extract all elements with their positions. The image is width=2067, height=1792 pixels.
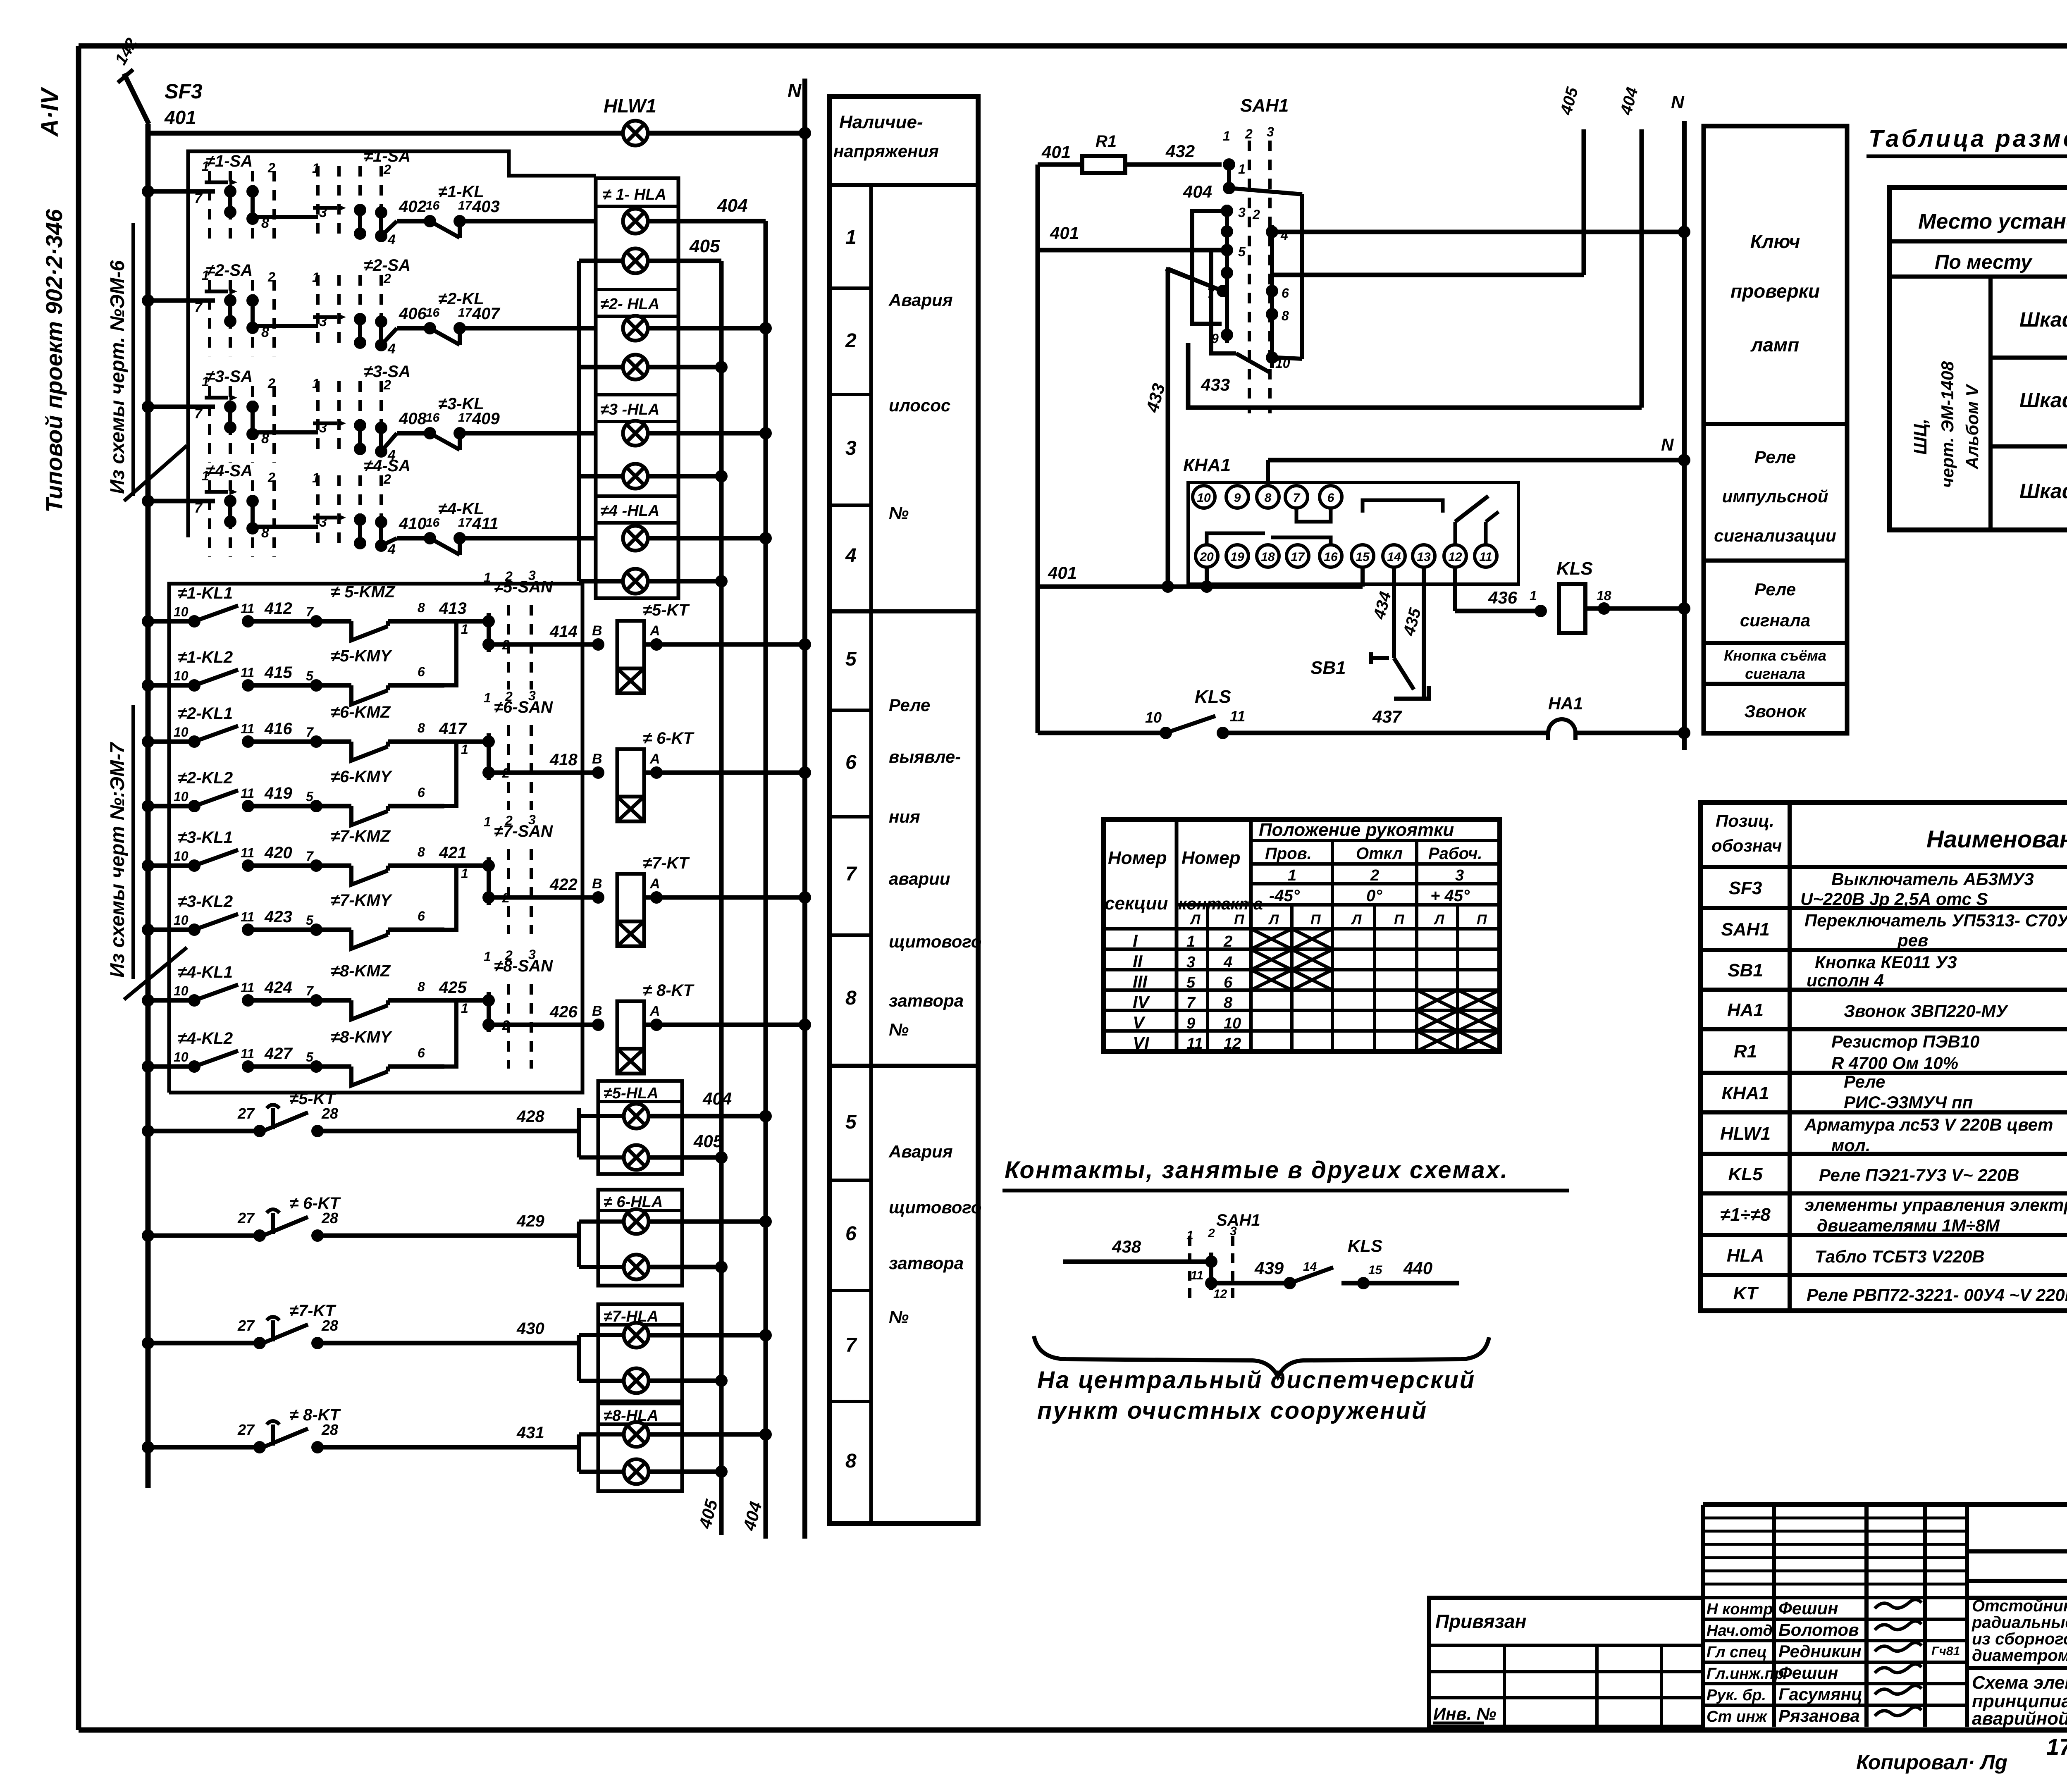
lamp box label divider 2a (596, 288, 678, 291)
KHA1 pin 6 (1320, 486, 1342, 508)
svg-text:Кнопка КЕ011 У3: Кнопка КЕ011 У3 (1815, 952, 1957, 972)
wire ≠5-KT А to N (644, 642, 805, 647)
svg-text:424: 424 (264, 978, 292, 997)
relay coil KLS (1559, 584, 1585, 633)
wire into lamp 1 (579, 1219, 624, 1224)
svg-text:14: 14 (1387, 550, 1401, 564)
svg-text:2: 2 (1252, 207, 1260, 222)
svg-text:≠4-KL1: ≠4-KL1 (178, 963, 233, 981)
svg-text:П: П (1310, 912, 1321, 928)
svg-text:3: 3 (319, 420, 327, 436)
svg-text:Табло ТСБТ3 V220В: Табло ТСБТ3 V220В (1815, 1247, 1985, 1266)
svg-text:Схема электрическая: Схема электрическая (1972, 1673, 2067, 1693)
svg-text:3: 3 (1455, 867, 1464, 884)
svg-text:401: 401 (1050, 223, 1079, 243)
contactor contact ≠5-KMY (310, 679, 444, 704)
wire ≠4-SA A8 to B (253, 525, 318, 529)
svg-text:≠2-KL2: ≠2-KL2 (178, 769, 233, 787)
wire ≠8-HLA-1 to 404 (649, 1432, 766, 1437)
junction ≠ 8-KT А (650, 1019, 663, 1031)
svg-text:20: 20 (1199, 550, 1214, 564)
wire ≠5-HLA-1 to 404 (649, 1114, 766, 1119)
junction on bus 401 (142, 401, 154, 413)
relay contact ≠4-KL1 row (142, 985, 316, 1007)
svg-text:По месту: По месту (1935, 251, 2033, 273)
time relay contact ≠5-KT (27-28) (142, 1105, 579, 1138)
svg-text:11: 11 (1230, 708, 1245, 725)
svg-text:439: 439 (1254, 1258, 1284, 1278)
junction at SAN pin 1 (482, 994, 495, 1007)
junction ≠ 8-KT В (592, 1019, 604, 1031)
junction on N (1678, 602, 1690, 615)
svg-text:Фешин: Фешин (1778, 1599, 1838, 1618)
lamp ≠7-HLA-2 (624, 1368, 649, 1393)
svg-text:10: 10 (1224, 1015, 1241, 1032)
X mark Рабоч П (1458, 1031, 1500, 1051)
KHA1 pin 20 (1196, 545, 1218, 567)
svg-text:5: 5 (845, 648, 857, 670)
svg-text:2: 2 (505, 948, 513, 963)
svg-text:На центральный диспетчерский: На центральный диспетчерский (1037, 1367, 1475, 1394)
svg-text:≠6-SAN: ≠6-SAN (494, 698, 553, 716)
time relay ≠5-KT (617, 621, 644, 693)
svg-text:8: 8 (845, 1450, 857, 1472)
svg-text:11: 11 (241, 845, 254, 860)
svg-text:3: 3 (319, 205, 327, 220)
svg-text:404: 404 (717, 196, 747, 216)
svg-text:2: 2 (845, 330, 857, 352)
svg-text:415: 415 (264, 663, 292, 682)
svg-text:7: 7 (306, 849, 314, 864)
svg-text:404: 404 (702, 1089, 732, 1108)
wire lamp3 to 404 (648, 326, 766, 331)
X mark Пров П (1292, 950, 1332, 970)
svg-text:18: 18 (1261, 550, 1275, 564)
svg-text:7: 7 (306, 983, 314, 998)
selector switch ≠4-SA group A (205, 480, 274, 557)
wire 436 (1455, 609, 1541, 613)
wire 430 riser to lamp group (577, 1335, 581, 1343)
svg-text:диаметром 18м: диаметром 18м (1972, 1646, 2067, 1665)
contactor contact ≠8-KMZ (310, 994, 444, 1019)
wire link pin20 (1207, 533, 1265, 545)
svg-text:VI: VI (1133, 1033, 1150, 1052)
svg-text:HLW1: HLW1 (1720, 1124, 1771, 1144)
signature squiggle Гасумянц (1875, 1685, 1921, 1694)
table Положение рукоятки (1103, 819, 1500, 1051)
svg-text:≠7-KMZ: ≠7-KMZ (331, 827, 391, 845)
junction ≠ 6-KT В (592, 766, 604, 779)
svg-text:10: 10 (174, 1050, 189, 1064)
svg-text:А: А (649, 623, 660, 639)
svg-text:IV: IV (1133, 992, 1150, 1012)
wire HA1 to N (1575, 731, 1684, 735)
svg-text:429: 429 (516, 1212, 544, 1230)
lamp group ≠ 6-HLA (598, 1190, 682, 1286)
svg-text:11: 11 (1191, 1269, 1203, 1282)
wire bus401 to ≠2-SA (148, 298, 215, 303)
svg-text:4: 4 (845, 545, 857, 567)
relay contact ≠1-KL with wires 402/403 (381, 215, 596, 238)
wire 401 top to HLW1 and N (148, 131, 805, 136)
svg-text:радиальные вторичные: радиальные вторичные (1972, 1613, 2067, 1632)
svg-text:Типовой проект 902·2·346: Типовой проект 902·2·346 (41, 209, 67, 513)
svg-text:7: 7 (306, 604, 314, 619)
time relay contact ≠ 6-KT (27-28) (142, 1210, 579, 1242)
svg-text:KLS: KLS (1556, 558, 1593, 579)
selector switch ≠3-SA group B (313, 381, 387, 458)
svg-text:из сборного ж/б: из сборного ж/б (1972, 1630, 2067, 1648)
junction 401/N (799, 127, 811, 139)
svg-text:3: 3 (845, 437, 857, 459)
svg-text:сигнализации: сигнализации (1714, 526, 1836, 545)
legend column box (1704, 126, 1847, 733)
svg-text:1: 1 (484, 814, 491, 829)
svg-text:Шкаф 2: Шкаф 2 (2019, 389, 2067, 412)
svg-text:Из схемы черт. №ЭМ-6: Из схемы черт. №ЭМ-6 (107, 260, 129, 494)
lamp ≠ 6-HLA-1 (624, 1209, 649, 1234)
svg-text:427: 427 (264, 1045, 293, 1063)
svg-text:Звонок ЗВП220-МУ: Звонок ЗВП220-МУ (1844, 1001, 2009, 1021)
wire into lamp 1 (579, 1333, 624, 1337)
wire into lamp 1 (579, 1114, 624, 1118)
svg-text:N: N (1661, 435, 1674, 454)
svg-text:KLS: KLS (1348, 1236, 1382, 1255)
svg-text:Авария: Авария (888, 290, 953, 310)
svg-text:6: 6 (418, 1045, 425, 1060)
title underline 2 (1002, 1189, 1569, 1193)
svg-text:Ст инж: Ст инж (1707, 1708, 1768, 1725)
svg-text:Шкаф 3: Шкаф 3 (2019, 480, 2067, 503)
X mark Рабоч Л (1417, 1011, 1458, 1031)
lamp 3HLA-1 (623, 421, 648, 446)
svg-text:405: 405 (689, 236, 720, 256)
svg-text:1: 1 (312, 161, 320, 176)
svg-text:414: 414 (549, 623, 578, 641)
svg-text:4: 4 (1223, 954, 1232, 971)
time relay ≠ 6-KT (617, 749, 644, 821)
wire ≠3-KL1 row to SAN (444, 864, 489, 868)
svg-text:-45°: -45° (1269, 887, 1300, 905)
wire N to KHA1 pin8 row (1268, 458, 1684, 463)
svg-text:≠8-KMZ: ≠8-KMZ (331, 962, 391, 980)
KHA1 pin 16 (1320, 545, 1342, 567)
svg-text:11: 11 (241, 721, 254, 736)
svg-text:2: 2 (505, 813, 513, 828)
svg-text:402: 402 (399, 198, 427, 216)
svg-text:А: А (649, 1003, 660, 1019)
svg-text:Шкаф 1: Шкаф 1 (2019, 308, 2067, 331)
svg-text:433: 433 (1201, 375, 1230, 394)
svg-text:≠4-SA: ≠4-SA (206, 462, 253, 480)
wire joining ≠1-KL2 row to ≠1-KL1 row (444, 621, 456, 685)
svg-text:Место установки: Место установки (1918, 210, 2067, 234)
relay contact KLS (other circuits) (1211, 1267, 1459, 1289)
svg-text:6: 6 (1327, 491, 1334, 505)
svg-text:III: III (1133, 972, 1148, 991)
selector switch ≠6-SAN (482, 725, 531, 810)
svg-text:3: 3 (528, 812, 536, 827)
svg-text:10: 10 (174, 849, 189, 864)
SA block outline box (188, 151, 596, 537)
wire lamp1 to 404 (648, 219, 766, 224)
contactor contact ≠8-KMY (310, 1060, 444, 1086)
svg-text:8: 8 (418, 600, 425, 615)
svg-text:1: 1 (202, 159, 209, 174)
svg-text:418: 418 (549, 751, 578, 769)
svg-text:аварийной сигнализации: аварийной сигнализации (1972, 1708, 2067, 1729)
X mark Рабоч П (1458, 990, 1500, 1010)
wire ≠7-HLA-2 to 405 (649, 1379, 721, 1383)
svg-text:U~220В Jр 2,5А отс S: U~220В Jр 2,5А отс S (1800, 889, 1988, 909)
svg-text:№: № (889, 1307, 909, 1327)
lamp group ≠5-HLA (598, 1081, 682, 1174)
svg-text:432: 432 (1165, 141, 1195, 161)
svg-text:8: 8 (1224, 994, 1233, 1012)
wire ≠5-HLA-2 to 405 (649, 1155, 721, 1160)
time relay contact ≠7-KT (27-28) (142, 1317, 579, 1350)
svg-text:419: 419 (264, 784, 292, 802)
junction ≠7-KT В (592, 891, 604, 904)
junction on N (799, 1019, 811, 1031)
relay contact KLS (10-11) (1038, 716, 1548, 739)
svg-text:НА1: НА1 (1548, 694, 1583, 713)
svg-text:417: 417 (439, 720, 467, 738)
svg-text:10: 10 (1197, 491, 1211, 505)
wire diagonal to pin7 (1166, 269, 1223, 291)
riser (577, 1222, 581, 1267)
wire into lamp 1 (579, 1432, 624, 1436)
svg-text:напряжения: напряжения (833, 141, 939, 161)
svg-text:8: 8 (1265, 491, 1272, 505)
svg-text:8: 8 (418, 845, 425, 859)
lamp 4HLA-1 (623, 526, 648, 551)
KHA1 pin 8 (1257, 486, 1279, 508)
lamp ≠8-HLA-2 (624, 1459, 649, 1484)
signature squiggle Редникин (1875, 1642, 1921, 1651)
relay contact ≠1-KL2 row (142, 670, 316, 692)
svg-text:Ключ: Ключ (1750, 231, 1800, 252)
svg-text:17: 17 (458, 411, 473, 425)
svg-text:В: В (592, 876, 602, 892)
selector switch ≠5-SAN (482, 605, 531, 690)
underline of note ЭМ-6 (131, 223, 135, 496)
wire ≠1-SA A8 to B (253, 215, 318, 219)
svg-text:≠4-KL2: ≠4-KL2 (178, 1029, 233, 1048)
wire 422 SAN to KT (489, 895, 598, 900)
svg-text:Наличие-: Наличие- (839, 112, 923, 132)
wire 433 diagonal (1168, 269, 1223, 291)
svg-text:SAH1: SAH1 (1240, 95, 1289, 116)
time relay contact ≠ 8-KT (27-28) (142, 1421, 579, 1454)
selector switch ≠7-SAN (482, 849, 531, 934)
wire lamp2 to 405 (648, 259, 721, 263)
junction at SAN pin 1 (482, 735, 495, 748)
svg-text:SAH1: SAH1 (1721, 919, 1769, 940)
svg-text:407: 407 (472, 305, 500, 323)
parts list table (1701, 802, 2067, 1311)
svg-text:2: 2 (505, 569, 513, 584)
svg-text:15: 15 (1356, 550, 1370, 564)
svg-text:≠8-SAN: ≠8-SAN (494, 957, 553, 975)
svg-text:11: 11 (1186, 1035, 1203, 1052)
svg-text:1: 1 (484, 949, 491, 964)
wire ≠4-KL1 row to SAN (444, 998, 489, 1003)
svg-text:6: 6 (418, 785, 425, 800)
wire 414 SAN to KT (489, 642, 598, 647)
svg-text:1: 1 (484, 690, 491, 705)
svg-text:12: 12 (1448, 550, 1462, 564)
lamp 2HLA-1 (623, 316, 648, 341)
svg-text:аварии: аварии (889, 869, 950, 888)
svg-text:409: 409 (472, 410, 500, 428)
wire link pin15 region (1363, 500, 1443, 513)
lamp ≠5-HLA-1 (624, 1104, 649, 1129)
svg-text:Редникин: Редникин (1778, 1642, 1862, 1661)
svg-text:7: 7 (306, 725, 314, 740)
svg-text:≠ 6-KT: ≠ 6-KT (643, 729, 695, 747)
svg-text:11: 11 (241, 1046, 254, 1061)
svg-text:411: 411 (472, 515, 499, 533)
wire ≠8-HLA-2 to 405 (649, 1470, 721, 1474)
svg-text:16: 16 (426, 199, 440, 212)
svg-text:Таблица размещения оборудова: Таблица размещения оборудования. (1869, 125, 2067, 152)
svg-text:Выключатель АБ3МУ3: Выключатель АБ3МУ3 (1831, 869, 2034, 889)
lamp 3HLA-2 (623, 464, 648, 489)
svg-text:10: 10 (174, 913, 189, 928)
contactor contact ≠7-KMZ (310, 859, 444, 885)
svg-text:16: 16 (426, 306, 440, 320)
svg-text:≠1-KL2: ≠1-KL2 (178, 648, 233, 666)
svg-text:17: 17 (1291, 550, 1305, 564)
signature squiggle Фешин (1875, 1664, 1921, 1673)
svg-text:≠ 5-KMZ: ≠ 5-KMZ (331, 583, 396, 601)
lamp box label divider 4a (596, 494, 678, 498)
svg-text:≠4 -HLA: ≠4 -HLA (600, 502, 659, 520)
svg-text:обознач: обознач (1711, 836, 1782, 855)
svg-text:секции: секции (1105, 893, 1168, 914)
svg-text:Гл.инж.пр: Гл.инж.пр (1707, 1665, 1784, 1682)
selector switch ≠3-SA group A (205, 386, 274, 463)
junction lamp5 (759, 427, 772, 439)
junction lamp6 (715, 470, 728, 482)
svg-text:II: II (1133, 952, 1143, 971)
wire bus401 to ≠4-SA (148, 499, 215, 503)
svg-text:6: 6 (418, 664, 425, 679)
KHA1 pin 12 (1444, 545, 1466, 567)
wire bus401 to ≠1-SA (148, 189, 215, 194)
svg-text:426: 426 (549, 1003, 578, 1021)
svg-text:3: 3 (1186, 954, 1195, 971)
relay contact ≠1-KL1 row (142, 606, 316, 628)
svg-text:Реле: Реле (1754, 580, 1796, 599)
wire diagonal to pin10 (1236, 353, 1269, 372)
wire SAH1 pin6 to 405 (1272, 273, 1584, 277)
svg-text:10: 10 (174, 725, 189, 740)
bell HA1 (1548, 719, 1575, 740)
junction on N bottom (1678, 727, 1690, 739)
svg-text:3: 3 (528, 688, 536, 703)
wire 429 riser to lamp group (577, 1222, 581, 1236)
wire link pin18-16 (1271, 537, 1331, 545)
svg-text:6: 6 (418, 909, 425, 923)
wire lamp7 to 404 (648, 536, 766, 541)
wire pin8 up (1266, 460, 1270, 486)
svg-text:404: 404 (1183, 182, 1212, 201)
selector switch ≠2-SA group B (313, 275, 387, 351)
contactor contact ≠7-KMY (310, 923, 444, 949)
svg-text:14: 14 (1303, 1260, 1317, 1274)
svg-text:11: 11 (241, 909, 254, 924)
svg-text:2: 2 (383, 271, 391, 286)
svg-text:2: 2 (267, 376, 275, 391)
svg-text:затвора: затвора (889, 991, 964, 1010)
svg-text:9: 9 (1186, 1015, 1195, 1032)
bus 405 vertical (center) (1582, 129, 1586, 275)
KHA1 pin 18 (1257, 545, 1279, 567)
svg-text:27: 27 (237, 1210, 255, 1226)
X mark Пров П (1292, 929, 1332, 949)
svg-text:430: 430 (516, 1320, 544, 1338)
signature squiggle Фешин (1875, 1599, 1921, 1608)
svg-text:420: 420 (264, 844, 292, 862)
svg-text:KL5: KL5 (1728, 1164, 1763, 1184)
svg-text:Отстойники канализационные: Отстойники канализационные (1972, 1597, 2067, 1615)
svg-text:5: 5 (306, 668, 314, 683)
svg-text:416: 416 (264, 720, 292, 738)
svg-text:2: 2 (1370, 867, 1379, 884)
svg-text:≠7-SAN: ≠7-SAN (494, 822, 553, 840)
frame bottom border (79, 1728, 2067, 1733)
wire riser joining even lamps (577, 261, 581, 581)
bus 404 vertical (left) (764, 221, 768, 1539)
svg-text:1: 1 (461, 622, 468, 637)
svg-text:Авария: Авария (888, 1142, 953, 1161)
svg-text:HLA: HLA (1727, 1246, 1764, 1266)
svg-text:405: 405 (693, 1131, 723, 1151)
title underline (1867, 155, 2067, 158)
svg-text:5: 5 (306, 1050, 314, 1064)
svg-text:KT: KT (1733, 1283, 1759, 1303)
relay contact ≠4-KL with wires 410/411 (381, 532, 596, 555)
wire 401 to SAH1 pin5 (1038, 248, 1227, 253)
svg-text:R1: R1 (1734, 1041, 1757, 1062)
svg-text:10: 10 (174, 604, 189, 619)
lamp box label divider 3b (596, 420, 678, 423)
wire loop pin5 down (1211, 250, 1236, 353)
junction KLS pin1 (1535, 605, 1547, 617)
svg-text:КНА1: КНА1 (1721, 1083, 1769, 1103)
svg-text:12: 12 (1213, 1287, 1227, 1301)
svg-text:6: 6 (845, 752, 857, 773)
svg-text:черт. ЭМ-1408: черт. ЭМ-1408 (1938, 361, 1957, 488)
junction lamp4 (715, 361, 728, 373)
svg-text:В: В (592, 623, 602, 639)
svg-text:Н контр: Н контр (1707, 1601, 1773, 1618)
svg-text:Реле ПЭ21-7У3 V~ 2: Реле ПЭ21-7У3 V~ 220В (1819, 1165, 2019, 1185)
svg-text:I: I (1133, 931, 1138, 950)
svg-text:16: 16 (426, 411, 440, 425)
bus N vertical (left) (802, 79, 807, 1539)
svg-text:412: 412 (264, 599, 292, 618)
wire joining ≠2-KL2 row to ≠2-KL1 row (444, 742, 456, 806)
svg-text:8: 8 (418, 721, 425, 735)
wire lamp5 to 404 (648, 431, 766, 436)
svg-text:SF3: SF3 (165, 80, 203, 103)
relay contact ≠4-KL2 row (142, 1051, 316, 1073)
svg-text:Контакты, занятые в других схе: Контакты, занятые в других схемах. (1005, 1157, 1508, 1184)
svg-text:421: 421 (439, 844, 467, 862)
